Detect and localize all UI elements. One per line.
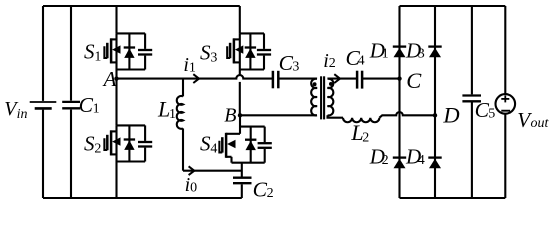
wire i0 from L1 to C2 lead [183, 170, 242, 172]
svg-text:C: C [253, 178, 268, 202]
svg-text:D: D [442, 103, 459, 128]
wire S1 leg top [115, 6, 117, 33]
node B junction dot [238, 113, 242, 117]
capacitor C2 [233, 163, 252, 198]
svg-text:C: C [79, 93, 94, 117]
wire C4 to node C [362, 78, 399, 80]
transformer secondary polarity dot [329, 82, 333, 86]
svg-text:3: 3 [292, 60, 299, 75]
wire Vout branch upper [504, 6, 506, 94]
svg-text:B: B [224, 104, 236, 126]
capacitor C4 [357, 71, 362, 89]
wire left edge lower [42, 110, 44, 198]
label i1 [183, 54, 196, 76]
wire S3 leg top [239, 6, 241, 33]
label C5 [475, 98, 496, 122]
capacitor C5 [462, 6, 481, 198]
label A [102, 67, 117, 91]
label S1 [84, 39, 101, 64]
wire rectifier box top [400, 5, 506, 7]
svg-text:C: C [279, 51, 294, 75]
diode D3 [428, 47, 441, 58]
wire left edge upper [42, 6, 44, 101]
svg-text:1: 1 [169, 107, 176, 122]
label i2 [323, 50, 336, 72]
wire hop to node B [239, 82, 241, 115]
svg-text:S: S [200, 40, 211, 64]
label S3 [200, 40, 217, 65]
label S2 [84, 131, 101, 156]
svg-text:S: S [84, 131, 95, 155]
transistor S2 mosfet with body diode and capacitor [104, 125, 152, 161]
wire L2 to node D with hop over rectifier left leg [379, 112, 435, 118]
label C3 [279, 51, 300, 75]
svg-text:2: 2 [267, 186, 274, 201]
transistor S1 mosfet with body diode and capacitor [104, 33, 152, 69]
current arrow i1 [193, 74, 199, 83]
svg-text:2: 2 [382, 153, 389, 168]
wire secondary top to C4 [328, 78, 358, 80]
label D3 [405, 38, 425, 62]
wire Vout branch lower [504, 114, 506, 198]
label C node [406, 68, 422, 93]
svg-text:5: 5 [488, 107, 495, 122]
svg-text:1: 1 [94, 49, 101, 64]
svg-text:1: 1 [93, 101, 100, 116]
wire node A to C3 with hop over S3 leg [117, 75, 273, 78]
transistor S4 mosfet with body diode and capacitor [219, 115, 271, 162]
label D4 [405, 144, 425, 168]
transformer primary polarity dot [313, 82, 317, 86]
svg-text:2: 2 [329, 56, 336, 71]
svg-text:1: 1 [189, 60, 196, 75]
wire rectifier right leg [434, 6, 436, 198]
inductor L2 [343, 118, 379, 123]
wire primary bottom to node B [240, 114, 317, 116]
label i0 [185, 174, 198, 196]
label D2 [369, 144, 389, 168]
transformer secondary winding [328, 79, 334, 116]
svg-text:S: S [84, 39, 95, 63]
wire S2 leg bottom [115, 162, 117, 199]
label C2 [253, 178, 274, 202]
label Vout [517, 108, 549, 132]
label D node [442, 103, 459, 128]
svg-text:in: in [17, 107, 28, 122]
current arrow i2 [334, 74, 340, 83]
node D junction dot [433, 113, 437, 117]
capacitor C1 [62, 6, 80, 198]
svg-text:1: 1 [382, 47, 389, 62]
node C junction dot [397, 76, 401, 80]
wire S3 to hop [239, 70, 241, 76]
svg-text:A: A [102, 67, 117, 91]
wire S1 to S2 through node A [115, 70, 117, 126]
label B [224, 104, 236, 126]
inductor L1 [177, 79, 183, 171]
transformer core [321, 76, 324, 119]
node A junction dot [114, 76, 118, 80]
svg-text:3: 3 [418, 47, 425, 62]
label Vin [4, 98, 27, 122]
transformer primary winding [311, 79, 317, 116]
source Vout plus [501, 95, 509, 102]
label D1 [369, 38, 389, 62]
wire rectifier box bottom [400, 197, 506, 199]
svg-text:0: 0 [190, 180, 197, 195]
current arrow i0 [189, 166, 195, 175]
diode D4 [428, 158, 441, 169]
source Vout minus [501, 110, 510, 112]
label S4 [200, 131, 217, 156]
svg-text:4: 4 [418, 153, 425, 168]
wire C3 to transformer primary [278, 78, 317, 80]
label C4 [346, 46, 365, 70]
source Vout circle [496, 94, 516, 114]
svg-text:4: 4 [210, 141, 217, 156]
wire rectifier left leg [398, 6, 400, 198]
transistor S3 mosfet with body diode and capacitor [227, 33, 271, 69]
svg-text:4: 4 [358, 54, 365, 69]
svg-text:2: 2 [94, 141, 101, 156]
svg-text:out: out [531, 116, 550, 131]
diode D1 [393, 47, 406, 58]
svg-text:3: 3 [210, 50, 217, 65]
svg-text:S: S [200, 131, 211, 155]
label L2 [350, 120, 369, 145]
svg-text:2: 2 [362, 131, 369, 146]
label C1 [79, 93, 100, 117]
wire secondary bottom to L2 [328, 115, 344, 118]
wire left box bottom border [43, 197, 242, 199]
label L1 [157, 96, 176, 122]
battery Vin [30, 102, 57, 108]
capacitor C3 [273, 71, 278, 89]
diode D2 [393, 158, 406, 169]
wire left box top border [43, 5, 240, 7]
svg-text:C: C [406, 68, 422, 93]
